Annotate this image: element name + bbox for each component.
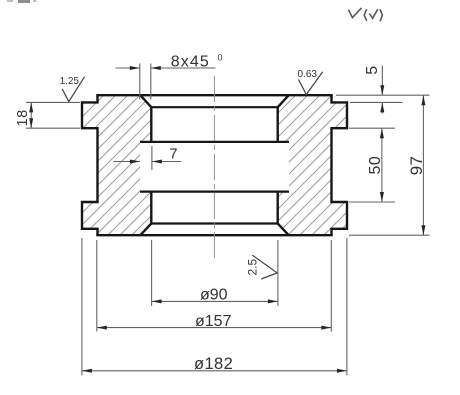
svg-text:2.5: 2.5 bbox=[246, 258, 260, 275]
dim 7 extension line bbox=[151, 146, 153, 170]
dim 8x45 line right tail bbox=[151, 67, 216, 69]
dim 8x45 arrow right-pointing bbox=[130, 66, 140, 70]
dim 5 arrow up-pointing bbox=[380, 102, 384, 112]
dim 5 line lower bbox=[381, 102, 383, 113]
svg-text:97: 97 bbox=[407, 156, 426, 176]
dim o182 line bbox=[82, 370, 347, 372]
dim 7 arrow right-pointing bbox=[130, 160, 140, 164]
dim o90 arrow left bbox=[152, 299, 162, 303]
dim 18 arrow down bbox=[29, 118, 33, 128]
svg-text:0: 0 bbox=[218, 53, 223, 63]
dim 18 extension line bottom bbox=[26, 127, 80, 129]
dim o157 extension line right bbox=[330, 240, 332, 332]
dim 97 arrow up bbox=[421, 95, 425, 105]
dim 97 arrow down bbox=[421, 225, 425, 235]
dim 5 line upper bbox=[381, 66, 383, 96]
dim 50 line bbox=[381, 128, 383, 202]
cropped text remnant top-left corner bbox=[7, 0, 37, 3]
svg-text:1.25: 1.25 bbox=[60, 76, 80, 87]
svg-text:ø182: ø182 bbox=[194, 355, 233, 373]
svg-text:8x45: 8x45 bbox=[171, 53, 210, 70]
dim 8x45 line left tail bbox=[116, 67, 140, 69]
section hatch left wall bbox=[82, 95, 151, 235]
dim 18 arrow up bbox=[29, 102, 33, 112]
dim o90 arrow right bbox=[268, 299, 278, 303]
dim o157 arrow left bbox=[97, 326, 107, 330]
svg-text:5: 5 bbox=[364, 66, 381, 75]
top face line bbox=[96, 94, 332, 96]
dim 5 arrow down-pointing bbox=[380, 85, 384, 95]
dim 5 extension line bottom bbox=[350, 101, 403, 103]
groove bottom line bbox=[140, 191, 289, 193]
groove top line bbox=[140, 141, 289, 143]
dim o182 arrow left bbox=[82, 369, 92, 373]
dim 8x45 arrow left-pointing bbox=[151, 66, 161, 70]
dim o182 extension line left bbox=[81, 238, 83, 375]
dim o90 extension line right bbox=[277, 240, 279, 306]
bottom bore chamfer edge line bbox=[151, 222, 277, 224]
dim 50 arrow down bbox=[380, 192, 384, 202]
roughness 0.63 symbol bbox=[299, 72, 323, 95]
dim o157 extension line left bbox=[96, 240, 98, 332]
svg-text:0.63: 0.63 bbox=[298, 69, 318, 80]
svg-text:ø90: ø90 bbox=[200, 287, 228, 304]
dim o182 arrow right bbox=[337, 369, 347, 373]
dim 97 line bbox=[422, 95, 424, 235]
dim o157 arrow right bbox=[321, 326, 331, 330]
dim 50 extension line top bbox=[349, 127, 395, 129]
roughness 1.25 symbol bbox=[62, 77, 84, 102]
bottom face line bbox=[96, 234, 332, 236]
part outline right wall bbox=[278, 95, 347, 235]
dim 50 extension line bottom bbox=[349, 201, 395, 203]
part outline left wall bbox=[82, 95, 151, 235]
dim 18 line bbox=[30, 102, 32, 128]
svg-text:18: 18 bbox=[15, 109, 31, 126]
svg-text:ø157: ø157 bbox=[195, 313, 232, 330]
svg-text:50: 50 bbox=[367, 156, 384, 175]
dim o90 line bbox=[152, 300, 278, 302]
roughness 2.5 symbol bbox=[252, 255, 277, 279]
dim 97 extension line bottom bbox=[349, 234, 430, 236]
dim o90 extension line left bbox=[151, 240, 153, 306]
dim o182 extension line right bbox=[346, 238, 348, 375]
svg-text:7: 7 bbox=[169, 146, 177, 163]
dim o157 line bbox=[97, 327, 331, 329]
dim 7 line left tail bbox=[113, 161, 140, 163]
dim 8x45 extension line right bbox=[150, 64, 152, 100]
section hatch right wall bbox=[278, 95, 347, 235]
dim 5 extension line top (shared with 97) bbox=[336, 94, 430, 96]
dim 50 arrow up bbox=[380, 128, 384, 138]
general roughness symbol top right bbox=[349, 8, 383, 22]
dim 7 arrow left-pointing bbox=[152, 160, 162, 164]
dim 8x45 extension line left bbox=[139, 64, 141, 100]
vertical centerline (axis) bbox=[213, 76, 215, 258]
dim 7 line right tail bbox=[152, 161, 181, 163]
dim 18 extension line top bbox=[26, 101, 80, 103]
top bore chamfer edge line bbox=[151, 106, 277, 108]
